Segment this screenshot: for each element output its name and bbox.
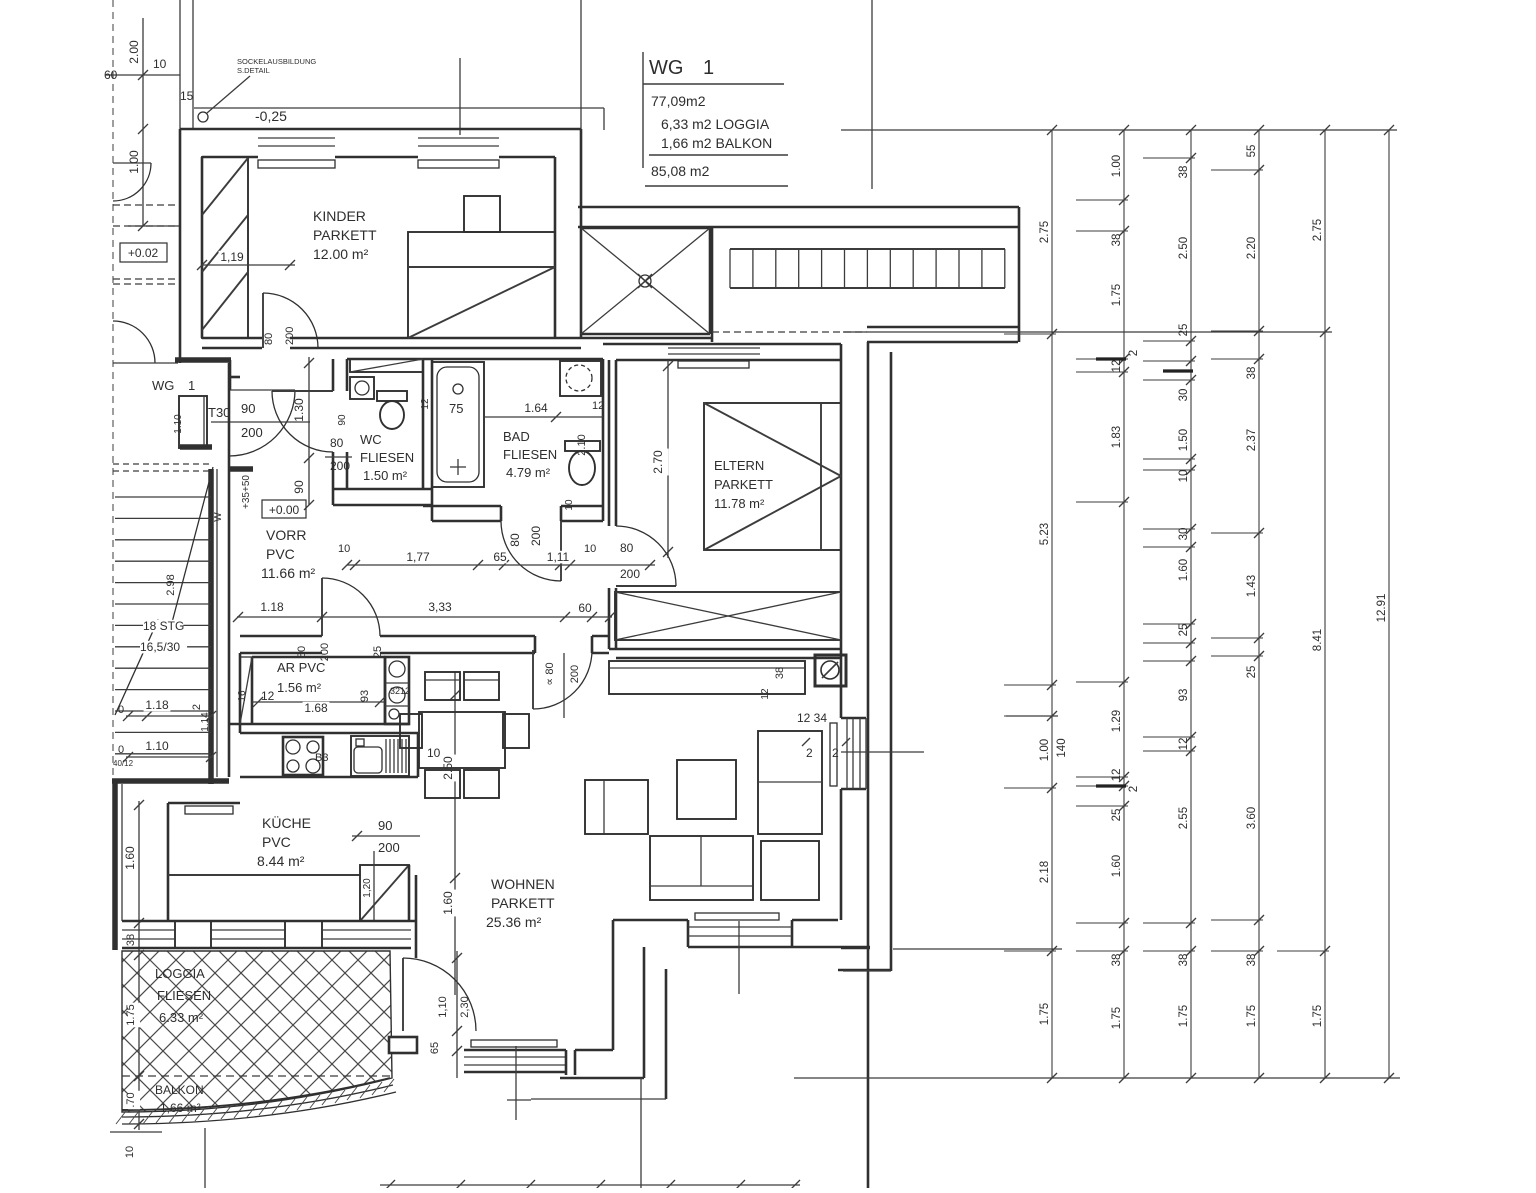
svg-text:8.41: 8.41	[1312, 629, 1324, 651]
svg-text:PVC: PVC	[266, 546, 295, 562]
stair treads	[113, 463, 211, 465]
svg-text:1.60: 1.60	[123, 846, 137, 870]
svg-text:1.64: 1.64	[524, 401, 548, 415]
svg-text:77,09m2: 77,09m2	[651, 93, 706, 109]
svg-text:3212: 3212	[390, 686, 410, 696]
svg-text:BALKON: BALKON	[155, 1083, 204, 1097]
ELTERN door	[616, 585, 676, 587]
svg-text:1: 1	[703, 57, 714, 79]
svg-text:6.33 m²: 6.33 m²	[159, 1010, 204, 1025]
roof overhang	[194, 107, 604, 109]
svg-text:∝ 80: ∝ 80	[544, 662, 556, 685]
svg-text:+0.00: +0.00	[269, 503, 300, 517]
dim chain x=1259	[1258, 130, 1260, 1078]
AR duct	[385, 657, 409, 724]
svg-text:200: 200	[529, 526, 543, 546]
svg-text:3.60: 3.60	[1246, 807, 1258, 829]
svg-text:KÜCHE: KÜCHE	[262, 814, 311, 831]
BAD bottom wall	[423, 505, 501, 508]
kitchen bench	[168, 874, 360, 876]
svg-text:6,33 m2 LOGGIA: 6,33 m2 LOGGIA	[661, 116, 770, 132]
svg-text:1.00: 1.00	[127, 150, 141, 174]
KINDER window 2	[418, 137, 499, 139]
svg-text:12: 12	[261, 689, 275, 703]
svg-text:WC: WC	[360, 432, 382, 447]
WC niche	[350, 359, 423, 372]
loggia door	[408, 865, 411, 921]
svg-text:1.75: 1.75	[1178, 1005, 1190, 1027]
svg-text:2.50: 2.50	[1178, 237, 1190, 259]
kitchen door dim	[352, 835, 420, 837]
KINDER shaft wall	[554, 157, 557, 338]
armchair	[585, 780, 648, 834]
svg-text:1.56 m²: 1.56 m²	[277, 680, 322, 695]
svg-text:0: 0	[118, 744, 124, 756]
svg-text:2.10: 2.10	[576, 434, 588, 455]
svg-text:FLIESEN: FLIESEN	[157, 988, 211, 1003]
svg-text:1.18: 1.18	[145, 698, 169, 712]
BAD toilet	[565, 441, 600, 451]
dim 2.50	[454, 672, 456, 995]
night table	[464, 196, 500, 232]
AR door	[321, 578, 323, 636]
east window	[841, 717, 866, 720]
svg-text:PARKETT: PARKETT	[491, 895, 555, 911]
svg-text:90: 90	[378, 818, 392, 833]
svg-text:10: 10	[584, 543, 596, 555]
kitchen west interior	[168, 802, 240, 805]
title block	[642, 52, 644, 168]
svg-text:12: 12	[1111, 360, 1123, 373]
svg-text:B3: B3	[315, 752, 328, 764]
VORR dim row 2	[237, 616, 612, 618]
dim 1.30 vertical	[308, 357, 310, 458]
coffee table	[677, 760, 736, 819]
svg-text:.70: .70	[125, 1092, 137, 1107]
dim chain x=1389	[1388, 130, 1390, 1078]
svg-text:1.43: 1.43	[1246, 575, 1258, 597]
svg-text:2: 2	[1128, 350, 1140, 356]
AR door 16	[240, 657, 252, 724]
dim column top-left	[142, 18, 144, 226]
svg-text:1,10: 1,10	[437, 996, 449, 1017]
svg-text:WG: WG	[649, 57, 683, 79]
svg-text:LOGGIA: LOGGIA	[155, 966, 205, 981]
svg-text:80: 80	[620, 541, 634, 555]
svg-text:1.00: 1.00	[1111, 155, 1123, 177]
balkon dashed line	[122, 1075, 392, 1077]
dim chain x=1191	[1190, 130, 1192, 1078]
svg-text:2.70: 2.70	[651, 450, 665, 474]
neighbour door arc 2	[113, 321, 155, 363]
seat	[761, 841, 819, 900]
dim chain x=1124	[1123, 130, 1125, 1078]
corridor below stair	[712, 331, 867, 333]
svg-text:85,08 m2: 85,08 m2	[651, 163, 710, 179]
svg-text:25: 25	[1178, 324, 1190, 337]
svg-text:38: 38	[1178, 954, 1190, 967]
neighbour walls dashed	[113, 204, 180, 206]
svg-text:38: 38	[1178, 166, 1190, 179]
svg-text:WOHNEN: WOHNEN	[491, 876, 555, 892]
svg-text:+35+50: +35+50	[241, 475, 252, 509]
svg-text:200: 200	[284, 327, 296, 345]
svg-text:80: 80	[330, 436, 344, 450]
sofa bottom	[650, 836, 753, 900]
svg-text:2: 2	[1128, 786, 1140, 792]
dining table	[419, 712, 505, 768]
svg-text:1.75: 1.75	[125, 1004, 137, 1025]
svg-text:FLIESEN: FLIESEN	[360, 450, 414, 465]
ELTERN south wall	[609, 648, 841, 651]
svg-text:T30: T30	[208, 405, 230, 420]
bottom-left bold walls	[112, 778, 229, 784]
svg-text:1.75: 1.75	[1312, 1005, 1324, 1027]
south window band	[122, 920, 416, 923]
svg-text:200: 200	[620, 567, 640, 581]
svg-text:90: 90	[337, 414, 348, 426]
sink	[351, 736, 409, 776]
dim 1.19	[202, 264, 295, 266]
svg-text:S.DETAIL: S.DETAIL	[237, 66, 270, 75]
svg-text:VORR: VORR	[266, 527, 306, 543]
svg-text:1.50 m²: 1.50 m²	[363, 468, 408, 483]
bottom dim line	[380, 1184, 800, 1186]
svg-text:10: 10	[564, 499, 575, 511]
svg-text:1: 1	[188, 378, 195, 393]
ELTERN wardrobe	[615, 592, 841, 640]
entry sill bold	[180, 444, 212, 450]
balcony curved edge	[122, 1078, 390, 1110]
svg-text:2.00: 2.00	[127, 40, 141, 64]
bay window	[464, 1049, 566, 1052]
svg-text:12: 12	[420, 398, 431, 410]
svg-text:10: 10	[1178, 470, 1190, 483]
svg-text:1.75: 1.75	[1111, 1007, 1123, 1029]
dining chairs	[425, 672, 460, 700]
svg-text:200: 200	[330, 459, 350, 473]
svg-text:65: 65	[493, 550, 507, 564]
svg-text:25: 25	[1246, 666, 1258, 679]
svg-text:ELTERN: ELTERN	[714, 458, 764, 473]
svg-text:25.36 m²: 25.36 m²	[486, 914, 542, 930]
svg-text:1.14: 1.14	[200, 712, 211, 732]
radiator	[830, 723, 837, 786]
extension lines bottom	[515, 1046, 517, 1120]
svg-text:200: 200	[378, 840, 400, 855]
dim datum top	[841, 129, 1397, 131]
el symbol	[815, 655, 846, 686]
svg-text:25: 25	[1111, 809, 1123, 822]
KINDER window 1	[258, 137, 335, 139]
svg-text:3,33: 3,33	[428, 600, 452, 614]
svg-text:WG: WG	[152, 378, 174, 393]
svg-text:38: 38	[774, 667, 786, 679]
svg-text:2.75: 2.75	[1312, 219, 1324, 241]
ELTERN west wall lower	[608, 588, 611, 649]
svg-text:-0,25: -0,25	[255, 108, 287, 124]
stair wall	[711, 228, 714, 342]
svg-text:30: 30	[1178, 528, 1190, 541]
svg-text:KINDER: KINDER	[313, 208, 366, 224]
svg-text:5.23: 5.23	[1039, 523, 1051, 545]
svg-text:30: 30	[1178, 389, 1190, 402]
bathtub	[432, 362, 484, 487]
svg-text:38: 38	[1111, 954, 1123, 967]
svg-text:1.18: 1.18	[260, 600, 284, 614]
svg-text:PVC: PVC	[262, 834, 291, 850]
stair treads upper	[730, 248, 1005, 250]
svg-text:1.00: 1.00	[1039, 739, 1051, 761]
AR walls	[239, 653, 242, 733]
svg-text:60: 60	[104, 68, 118, 82]
svg-text:1,19: 1,19	[220, 250, 244, 264]
svg-text:1.10: 1.10	[145, 739, 169, 753]
WC toilet	[377, 391, 407, 401]
stair label	[143, 620, 183, 633]
ELTERN north wall	[603, 343, 841, 346]
svg-text:93: 93	[359, 690, 371, 702]
svg-text:90: 90	[241, 401, 255, 416]
svg-text:80: 80	[263, 333, 275, 345]
svg-text:25: 25	[1178, 624, 1190, 637]
svg-text:BAD: BAD	[503, 429, 530, 444]
svg-text:8.44 m²: 8.44 m²	[257, 853, 305, 869]
svg-text:FLIESEN: FLIESEN	[503, 447, 557, 462]
svg-text:12.00 m²: 12.00 m²	[313, 246, 369, 262]
dim datum bottom	[794, 1077, 1400, 1079]
dim chain x=1052	[1051, 130, 1053, 1078]
svg-text:AR PVC: AR PVC	[277, 660, 325, 675]
svg-text:80: 80	[508, 533, 522, 547]
WC washbasin	[350, 377, 374, 399]
KINDER door	[262, 293, 264, 348]
svg-text:75: 75	[449, 401, 463, 416]
entry door T30	[179, 396, 207, 448]
bay walls	[612, 920, 615, 1050]
svg-text:15: 15	[180, 89, 194, 103]
dim chain x=1325	[1324, 130, 1326, 1078]
svg-text:11.78 m²: 11.78 m²	[714, 496, 765, 511]
svg-text:10: 10	[427, 746, 441, 760]
svg-text:38: 38	[125, 934, 137, 946]
svg-text:W: W	[213, 512, 224, 522]
svg-text:+0.02: +0.02	[128, 246, 159, 260]
ELTERN window	[668, 347, 760, 349]
svg-text:2.75: 2.75	[1039, 221, 1051, 243]
svg-text:10: 10	[153, 57, 167, 71]
stair diagonal	[115, 467, 213, 715]
svg-text:90: 90	[292, 480, 306, 494]
svg-text:18 STG: 18 STG	[143, 619, 184, 633]
stairwell walls	[208, 469, 214, 784]
svg-text:38: 38	[1246, 367, 1258, 380]
svg-text:16,5/30: 16,5/30	[140, 640, 180, 654]
svg-text:40/12: 40/12	[113, 759, 134, 768]
entry bold wall	[175, 357, 231, 363]
property boundary dashed line	[112, 0, 114, 781]
svg-text:1.75: 1.75	[1246, 1005, 1258, 1027]
svg-text:1.83: 1.83	[1111, 426, 1123, 448]
svg-text:200: 200	[569, 665, 581, 683]
KINDER bed	[408, 232, 555, 338]
svg-text:10: 10	[338, 543, 350, 555]
svg-text:1.60: 1.60	[441, 891, 455, 915]
BAD washbasin	[560, 361, 601, 396]
level marker +0.02	[120, 243, 167, 262]
svg-text:60: 60	[578, 601, 592, 615]
svg-text:12: 12	[592, 400, 604, 412]
level +0.00	[262, 500, 306, 518]
leaders	[843, 331, 1332, 333]
upper block band	[578, 206, 1019, 209]
neighbour door arc 1	[113, 162, 151, 164]
WOHNEN door	[532, 650, 534, 709]
ELTERN bed	[704, 403, 841, 550]
svg-text:0: 0	[118, 704, 124, 716]
svg-text:16: 16	[237, 690, 248, 702]
svg-text:PARKETT: PARKETT	[313, 227, 377, 243]
svg-text:38: 38	[1111, 234, 1123, 247]
BAD door	[560, 521, 562, 581]
svg-text:1,11: 1,11	[547, 550, 570, 564]
svg-text:4.79 m²: 4.79 m²	[506, 465, 551, 480]
svg-text:2,30: 2,30	[459, 996, 471, 1017]
svg-text:PARKETT: PARKETT	[714, 477, 773, 492]
sideboard	[609, 661, 805, 694]
loggia door pier	[389, 1037, 417, 1053]
svg-text:65: 65	[429, 1042, 441, 1054]
svg-text:200: 200	[241, 425, 263, 440]
svg-text:1.60: 1.60	[1178, 559, 1190, 581]
loggia dims	[138, 951, 140, 1130]
stove	[283, 737, 323, 775]
svg-text:1,66 m²: 1,66 m²	[160, 1101, 201, 1115]
svg-text:1.68: 1.68	[304, 701, 328, 715]
dim 1.60 left	[138, 801, 140, 951]
svg-text:1.75: 1.75	[1039, 1003, 1051, 1025]
svg-text:2: 2	[832, 746, 839, 760]
WC walls	[332, 359, 335, 391]
corner cabinet	[360, 865, 409, 921]
landing dims	[126, 715, 213, 717]
svg-text:12 34: 12 34	[797, 711, 827, 725]
svg-text:93: 93	[1178, 689, 1190, 702]
svg-text:2.55: 2.55	[1178, 807, 1190, 829]
ELTERN east wall	[840, 344, 843, 718]
kitchen counter	[240, 732, 418, 735]
lift shaft	[581, 227, 710, 230]
KINDER wardrobe	[202, 157, 248, 338]
svg-text:12.91: 12.91	[1376, 594, 1388, 623]
svg-text:1.50: 1.50	[1178, 429, 1190, 451]
svg-text:1.75: 1.75	[1111, 284, 1123, 306]
svg-text:12: 12	[760, 688, 771, 700]
svg-text:12: 12	[1178, 738, 1190, 751]
facade extension lines	[580, 0, 582, 129]
dim 2.70	[667, 360, 669, 558]
svg-text:12: 12	[1111, 769, 1123, 782]
svg-text:2.20: 2.20	[1246, 237, 1258, 259]
svg-text:1.29: 1.29	[1111, 710, 1123, 732]
svg-text:2: 2	[806, 746, 813, 760]
WOHNEN south wall	[613, 919, 688, 922]
svg-text:1,77: 1,77	[406, 550, 430, 564]
svg-text:1.60: 1.60	[1111, 855, 1123, 877]
BAD dims	[484, 416, 603, 418]
svg-text:SOCKELAUSBILDUNG: SOCKELAUSBILDUNG	[237, 57, 316, 66]
svg-text:1.10: 1.10	[173, 414, 184, 434]
svg-text:140: 140	[1056, 738, 1068, 757]
svg-text:2.37: 2.37	[1246, 429, 1258, 451]
sofa right	[758, 731, 822, 834]
svg-text:55: 55	[1246, 145, 1258, 158]
VORR south wall	[240, 635, 322, 638]
svg-text:2.18: 2.18	[1039, 861, 1051, 883]
svg-text:1,20: 1,20	[362, 878, 373, 898]
BAD east wall	[602, 359, 605, 521]
svg-text:200: 200	[319, 643, 331, 661]
east corner	[841, 947, 870, 950]
KINDER exterior walls	[180, 128, 581, 131]
svg-text:1,66 m2 BALKON: 1,66 m2 BALKON	[661, 135, 772, 151]
svg-text:1.30: 1.30	[292, 398, 306, 422]
VORR dim row 1	[347, 564, 655, 566]
WC door	[272, 390, 333, 392]
KINDER south wall	[202, 337, 262, 340]
curve band ticks	[116, 1111, 126, 1124]
WOHNEN south window	[688, 926, 792, 928]
svg-text:2.98: 2.98	[165, 574, 177, 595]
svg-text:10: 10	[124, 1146, 136, 1158]
svg-text:38: 38	[1246, 954, 1258, 967]
svg-text:2: 2	[191, 704, 203, 710]
svg-text:11.66 m²: 11.66 m²	[261, 565, 316, 581]
